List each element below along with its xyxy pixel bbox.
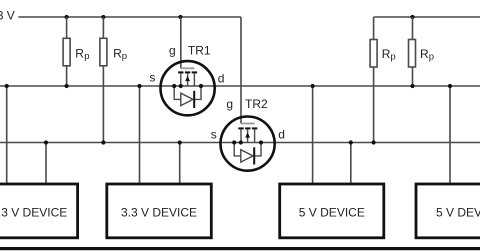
node rail junction at TR1 gate <box>178 15 182 19</box>
svg-text:d: d <box>218 71 225 85</box>
svg-text:s: s <box>149 71 155 85</box>
label TR2 s <box>211 127 217 141</box>
box 3.3 V device 2 <box>107 184 212 238</box>
resistor Rp4 <box>409 17 416 86</box>
svg-text:p: p <box>390 52 395 63</box>
node line1 5V device1 junction <box>311 84 315 88</box>
label TR1 <box>188 44 211 58</box>
svg-text:R: R <box>382 47 391 61</box>
transistor TR1 (MOSFET) <box>161 61 215 115</box>
svg-text:3.3 V DEVICE: 3.3 V DEVICE <box>0 205 67 219</box>
wire SDA 3.3V/5V line (line 1) <box>0 85 480 87</box>
svg-text:R: R <box>113 47 122 61</box>
node line1 Rp4 junction <box>410 84 414 88</box>
wire line2 to 3.3V device 1 <box>45 143 47 184</box>
svg-text:p: p <box>84 51 89 62</box>
node line2 Rp2 junction <box>101 140 105 144</box>
svg-text:s: s <box>211 127 217 141</box>
node rail junction at Rp4 <box>410 15 414 19</box>
node line1 device2 junction <box>137 84 141 88</box>
label Rp4 <box>420 47 434 63</box>
node rail junction at Rp2 <box>101 15 105 19</box>
svg-text:3.3 V DEVICE: 3.3 V DEVICE <box>121 205 197 219</box>
node line2 5V device1 junction <box>349 140 353 144</box>
supply label 3.3 V <box>0 9 15 23</box>
box 3.3 V device 1 <box>0 184 78 238</box>
wire line1 to 5V device 2 <box>449 86 451 183</box>
wire 5 V rail <box>374 16 480 18</box>
figure frame bottom border <box>0 247 480 250</box>
wire TR2 gate from rail <box>240 17 242 124</box>
label TR2 g <box>226 97 233 111</box>
svg-text:5 V DEVICE: 5 V DEVICE <box>299 205 365 219</box>
wire TR1 gate from rail <box>180 17 182 68</box>
label TR2 <box>245 97 268 111</box>
wire line1 to 3.3V device 1 <box>6 86 8 183</box>
resistor Rp3 <box>370 17 377 143</box>
svg-text:TR2: TR2 <box>245 97 268 111</box>
label TR1 g <box>169 44 176 58</box>
svg-text:R: R <box>420 47 429 61</box>
label TR2 d <box>278 128 285 142</box>
wire 3.3 V rail <box>18 16 241 18</box>
node line1 Rp1 junction <box>65 84 69 88</box>
label Rp3 <box>382 47 396 63</box>
svg-text:p: p <box>429 52 434 63</box>
svg-text:TR1: TR1 <box>188 44 211 58</box>
svg-text:R: R <box>75 47 84 61</box>
node line2 Rp3 junction <box>372 140 376 144</box>
wire line2 to 3.3V device 2 <box>179 143 181 184</box>
node rail junction at Rp1 <box>65 15 69 19</box>
svg-text:p: p <box>122 51 127 62</box>
wire line2 to 5V device 1 <box>350 143 352 184</box>
label TR1 d <box>218 71 225 85</box>
box 5 V device 2 <box>416 184 480 238</box>
svg-text:3.3 V: 3.3 V <box>0 9 15 23</box>
label TR1 s <box>149 71 155 85</box>
node line2 device1 junction <box>44 140 48 144</box>
wire line1 to 5V device 1 <box>312 86 314 183</box>
node line2 device2 junction <box>178 140 182 144</box>
node line1 left junction <box>5 84 9 88</box>
box 5 V device 1 <box>280 184 384 238</box>
node line1 5V device2 junction <box>448 84 452 88</box>
resistor Rp2 <box>100 17 107 143</box>
label Rp1 <box>75 47 89 63</box>
svg-text:g: g <box>226 97 233 111</box>
wire SCL 3.3V/5V line (line 2) <box>0 142 480 144</box>
svg-text:5 V DEVICE: 5 V DEVICE <box>436 205 480 219</box>
svg-text:g: g <box>169 44 176 58</box>
wire line1 to 3.3V device 2 <box>139 86 141 183</box>
resistor Rp1 <box>63 17 70 86</box>
label Rp2 <box>113 47 127 63</box>
transistor TR2 (MOSFET) <box>221 117 275 171</box>
svg-text:d: d <box>278 128 285 142</box>
